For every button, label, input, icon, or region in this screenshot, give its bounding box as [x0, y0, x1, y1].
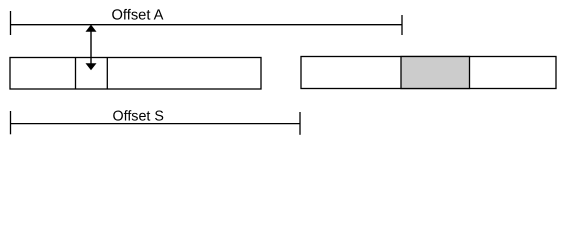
right end tick of Offset S line: [299, 112, 301, 135]
left end tick of Offset A line: [10, 11, 12, 35]
gray field cell: [401, 57, 470, 89]
dimension line Offset A: [10, 24, 402, 26]
down arrowhead: [86, 63, 97, 70]
right end tick of Offset A line: [401, 15, 403, 35]
left record box: [10, 58, 261, 90]
left box divider 1: [75, 58, 77, 90]
left end tick of Offset S line: [10, 111, 12, 134]
left box divider 2: [106, 58, 108, 90]
right record box: [301, 57, 556, 89]
svg-text:Offset A: Offset A: [112, 8, 164, 24]
double-headed arrow shaft: [90, 28, 92, 66]
up arrowhead: [86, 25, 97, 32]
svg-text:Offset S: Offset S: [113, 108, 164, 124]
dimension line Offset S: [10, 123, 300, 125]
